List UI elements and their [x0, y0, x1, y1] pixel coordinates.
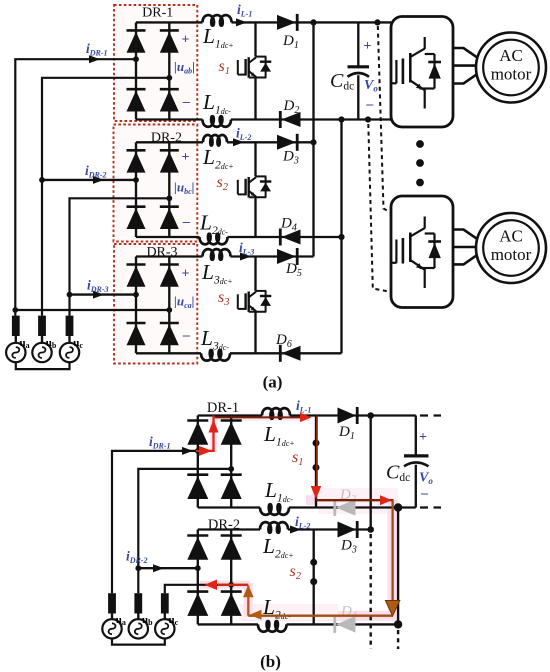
svg-text:iL-1: iL-1	[237, 2, 252, 19]
diode D6	[280, 345, 300, 362]
red arrow into DR-1 (b)	[199, 446, 212, 456]
diode D1 (b)	[338, 407, 358, 424]
svg-text:(a): (a)	[263, 373, 283, 392]
wire i_DR-2 from phase-b to DR-2 left input	[42, 179, 136, 181]
label D5	[285, 261, 302, 279]
switch S3 emitter lead	[254, 312, 256, 354]
label i_L-2	[236, 126, 251, 143]
svg-text:L1dc+: L1dc+	[263, 422, 295, 449]
inductor L3dc+	[203, 249, 231, 260]
switch S1 collector lead	[254, 22, 256, 56]
svg-text:D4: D4	[340, 604, 357, 622]
svg-text:D5: D5	[285, 261, 302, 279]
svg-text:iL-2: iL-2	[236, 126, 251, 143]
svg-text:DR-1: DR-1	[142, 6, 173, 21]
label Vo minus	[365, 97, 374, 112]
label i_DR-2	[85, 163, 107, 180]
wire phase-a to DR-1 left input (b)	[112, 451, 198, 593]
node phase-b junction	[39, 177, 45, 183]
svg-text:D2: D2	[283, 98, 300, 116]
label Vo (b)	[419, 471, 433, 487]
label i_DR-3	[87, 278, 109, 295]
wire DR-1 bottom rail to L1dc- (b)	[198, 506, 260, 508]
svg-text:–: –	[182, 95, 191, 110]
svg-text:s2: s2	[217, 174, 229, 193]
brown arrow up (b)	[243, 585, 254, 598]
svg-text:Vo: Vo	[419, 471, 433, 487]
switch S3 IGBT module	[238, 291, 271, 312]
label D4 gray (b)	[340, 604, 357, 622]
arrow i_DR-2	[93, 176, 104, 184]
inverter 1 output lines	[453, 48, 477, 84]
label D2	[283, 98, 300, 116]
wire L2dc+ to D3 (b)	[288, 528, 371, 530]
inductor L3dc-	[201, 350, 230, 361]
label u_ca	[174, 294, 195, 311]
label s2 (b)	[290, 563, 302, 582]
svg-text:–: –	[182, 215, 191, 230]
node phase-c junction	[67, 292, 73, 298]
node S1 upper (b)	[313, 440, 320, 447]
wire L1dc+ to D1 (b)	[290, 414, 416, 416]
svg-text:uc: uc	[73, 337, 83, 350]
label plus (b)	[419, 430, 427, 445]
label D3 (b)	[340, 538, 357, 556]
label Cdc (b)	[386, 462, 410, 485]
wire negative collection bus	[340, 120, 342, 354]
wire L1dc- through D2 to DC negative (b)	[289, 506, 416, 508]
source u_b (b)	[129, 593, 154, 638]
label i_L-3	[239, 240, 254, 257]
wire phase-a to DR-3 right input	[15, 309, 169, 311]
svg-text:iDR-2: iDR-2	[85, 163, 107, 180]
wire DR-2 top rail to L2dc+	[136, 141, 203, 143]
wire positive collection bus	[312, 22, 314, 256]
source u_a (b)	[102, 593, 126, 638]
wire DR-3 bottom rail to L3dc-	[136, 352, 201, 354]
svg-text:+: +	[182, 150, 190, 165]
switch S1 IGBT module	[238, 57, 271, 78]
AC motor 1	[476, 33, 546, 103]
wire phase-a bus to DR-1 left input	[15, 59, 136, 315]
inductor L2dc+	[203, 135, 227, 146]
wire phase-b to DR-1 right input (b)	[138, 469, 231, 593]
wire negative bus vertical (b)	[397, 508, 399, 625]
wire L3dc+ to D5	[231, 255, 314, 257]
svg-text:L3dc+: L3dc+	[201, 260, 233, 287]
node S2 upper (b)	[310, 559, 317, 566]
inverter 2 output lines	[453, 230, 477, 265]
svg-text:iDR-3: iDR-3	[87, 278, 109, 295]
ellipsis dots between inverters	[416, 140, 424, 186]
svg-text:iL-1: iL-1	[296, 398, 311, 415]
svg-text:iDR-1: iDR-1	[86, 41, 108, 58]
svg-text:s2: s2	[290, 563, 302, 582]
red arrow up (b)	[209, 420, 219, 433]
dashes DC positive continuation (b)	[420, 414, 441, 416]
diode D4	[280, 229, 300, 246]
svg-text:uc: uc	[169, 614, 179, 627]
switch S2 line (b)	[313, 530, 315, 625]
wire L2dc- to D4	[228, 236, 342, 238]
source u_c with line impedance	[60, 316, 84, 363]
inductor L2dc- (b)	[258, 621, 287, 632]
svg-text:motor: motor	[491, 245, 532, 264]
gray diode D2 (non conducting)	[335, 499, 356, 516]
svg-text:L2dc+: L2dc+	[262, 534, 294, 561]
source u_a with line impedance	[6, 316, 30, 363]
dashed DC negative link to inverter 2	[368, 124, 390, 292]
capacitor Cdc lower lead	[357, 75, 359, 119]
arrow i_L-1	[236, 18, 247, 26]
label DR-1	[142, 6, 173, 21]
DR-3 rectifier dashed boundary box	[114, 244, 197, 364]
label s1	[219, 58, 230, 77]
svg-text:L2dc-: L2dc-	[199, 211, 228, 238]
svg-text:Vo: Vo	[364, 78, 378, 94]
label minus (b)	[420, 486, 429, 501]
node phase-b junction (b)	[135, 565, 141, 571]
svg-text:L3dc-: L3dc-	[200, 326, 229, 353]
label (b)	[260, 652, 281, 671]
wire L1dc- to D2 and DC bus negative	[231, 118, 391, 120]
arrow i_L-2	[233, 138, 244, 146]
wire phase-c to DR-2 right input (b)	[165, 585, 231, 593]
inductor L2dc-	[200, 234, 228, 245]
inverter 2 IGBT symbol	[391, 217, 441, 289]
svg-text:D1: D1	[282, 33, 299, 51]
wire L3dc- to D6	[230, 352, 342, 354]
arrow i_DR-3	[93, 291, 104, 299]
label L3dc+	[201, 260, 233, 287]
svg-text:(b): (b)	[260, 652, 281, 671]
svg-text:+: +	[182, 33, 190, 48]
node S1 lower (b)	[313, 464, 320, 471]
red arrow down S1 (b)	[311, 486, 322, 499]
svg-text:motor: motor	[491, 65, 532, 84]
dark red overlay on S1 (b)	[316, 416, 318, 490]
capacitor Cdc plates	[348, 67, 370, 77]
arrow i_DR-1	[89, 55, 100, 63]
inductor L2dc+ (b)	[260, 522, 288, 533]
label s1 (b)	[292, 449, 303, 468]
label L1dc+	[202, 24, 234, 51]
label D2 gray (b)	[339, 487, 356, 505]
svg-text:iL-3: iL-3	[239, 240, 254, 257]
dashed DC positive link to inverter 2	[378, 26, 391, 213]
wire DR-2 bottom rail to L2dc- (b)	[198, 623, 258, 625]
red path up through DR-1 (b)	[196, 416, 215, 453]
label D1 (b)	[338, 424, 355, 442]
label D1	[282, 33, 299, 51]
pink glow highlight of conduction path	[200, 415, 398, 620]
label (a)	[263, 373, 283, 392]
label L2dc- (b)	[262, 595, 291, 622]
node negative bus top (b)	[394, 503, 402, 511]
node D3 cathode junction	[310, 139, 316, 145]
diode rectifier bridge DR-1 (b)	[187, 416, 241, 508]
inductor L1dc+	[203, 15, 232, 26]
dashes DC negative continuation (b)	[420, 506, 441, 508]
svg-text:s1: s1	[292, 449, 303, 468]
wire i_DR-3 from phase-c to DR-3 left input	[70, 293, 137, 295]
arrow i_L-2 (b)	[290, 526, 301, 534]
dashed negative bus continuation (b)	[397, 630, 399, 649]
svg-text:D3: D3	[340, 538, 357, 556]
inverter 1 IGBT symbol	[391, 37, 441, 109]
diode D5	[277, 248, 297, 265]
label L2dc-	[199, 211, 228, 238]
svg-text:s3: s3	[218, 289, 229, 308]
switch S2 collector lead	[254, 142, 256, 176]
label DR-1 minus	[182, 95, 191, 110]
svg-text:+: +	[364, 39, 372, 54]
label s2	[217, 174, 229, 193]
svg-text:iDR-2: iDR-2	[126, 549, 148, 566]
inductor L1dc- (b)	[260, 504, 289, 515]
capacitor Cdc upper lead (b)	[415, 416, 417, 456]
wire DR-1 top rail to L1dc+	[136, 21, 203, 23]
diode rectifier bridge DR-2 (4 diodes)	[127, 142, 179, 237]
label i_DR-1 (b)	[149, 434, 171, 451]
label u_ab	[174, 59, 195, 76]
label i_L-1 (b)	[296, 398, 311, 415]
switch S3 collector lead	[254, 257, 256, 291]
dark red path S1 to bus (b)	[316, 499, 394, 501]
wire L1dc+ to D1 and DC bus	[232, 21, 392, 23]
svg-text:L1dc+: L1dc+	[202, 24, 234, 51]
svg-text:iL-2: iL-2	[295, 514, 310, 531]
red arrow right on rail (b)	[300, 413, 312, 423]
node S2 lower (b)	[310, 578, 317, 585]
diode rectifier bridge DR-1 (4 diodes)	[127, 22, 179, 119]
arrow i_L-3	[240, 253, 251, 261]
svg-text:ua: ua	[116, 614, 126, 627]
svg-text:L1dc-: L1dc-	[202, 90, 231, 117]
AC motor 2	[476, 213, 546, 283]
wire phase-c bus to DR-2 right input	[70, 198, 170, 315]
wire DR-1 top rail to L1dc+ (b)	[198, 414, 262, 416]
label L2dc+ (b)	[262, 534, 294, 561]
svg-text:–: –	[182, 328, 191, 343]
svg-text:D3: D3	[282, 149, 299, 167]
switch S2 emitter lead	[254, 197, 256, 237]
label u_bc	[174, 180, 195, 197]
node D4 anode junction	[338, 234, 344, 240]
svg-text:L1dc-: L1dc-	[264, 478, 293, 505]
node DC bus top right	[374, 19, 380, 25]
label DR-3 minus	[182, 328, 191, 343]
label L1dc-	[202, 90, 231, 117]
brown path return left (b)	[248, 615, 392, 617]
label D6	[275, 332, 292, 350]
label L1dc+ (b)	[263, 422, 295, 449]
label DR-1 (b)	[207, 400, 239, 416]
brown arrow left (b)	[250, 610, 262, 620]
brown arrow down (b)	[385, 601, 399, 617]
svg-text:ua: ua	[20, 337, 30, 350]
dark red overlay on L1dc+ rail (b)	[215, 416, 302, 418]
wire L2dc- through D4 to bus (b)	[287, 623, 399, 625]
arrow i_DR-1 (b)	[182, 447, 193, 455]
gray diode D4 (non conducting)	[335, 616, 356, 633]
dashed positive bus continuation (b)	[370, 534, 372, 649]
label D4	[280, 216, 297, 234]
source u_c (b)	[155, 593, 179, 638]
arrow i_DR-2 (b)	[153, 564, 164, 572]
svg-text:L2dc+: L2dc+	[202, 145, 234, 172]
label DR-2 plus	[182, 150, 190, 165]
red arrow right to bus (b)	[380, 495, 392, 505]
label Vo plus	[364, 39, 372, 54]
wire phase-b bus to DR-1 right input	[42, 78, 169, 316]
svg-text:AC: AC	[499, 46, 523, 65]
svg-text:s1: s1	[219, 58, 230, 77]
wire DR-1 bottom rail to L1dc-	[136, 118, 203, 120]
wire source neutral bottom	[16, 362, 70, 369]
label i_DR-2 (b)	[126, 549, 148, 566]
svg-text:Cdc: Cdc	[330, 70, 354, 93]
label s3	[218, 289, 229, 308]
brown path up to DR-2 (b)	[247, 586, 249, 616]
node D1 junction (b)	[367, 412, 374, 419]
label i_DR-1	[86, 41, 108, 58]
label Vo	[364, 78, 378, 94]
switch S2 IGBT module	[238, 176, 271, 197]
wire positive bus D1-D3 (b)	[370, 416, 372, 530]
red overlay into DR-2 (b)	[218, 584, 248, 586]
svg-text:ub: ub	[46, 337, 57, 350]
source u_b with line impedance	[32, 316, 57, 363]
label D3	[282, 149, 299, 167]
DR-1 rectifier dashed boundary box	[114, 5, 197, 121]
diode rectifier bridge DR-3 (4 diodes)	[127, 257, 179, 354]
label DR-1 plus	[182, 33, 190, 48]
node D1 cathode junction	[310, 19, 316, 25]
wire DR-2 bottom rail to L2dc-	[136, 236, 200, 238]
svg-text:–: –	[420, 486, 429, 501]
diode D3	[277, 134, 297, 151]
label i_L-2 (b)	[295, 514, 310, 531]
svg-text:D1: D1	[338, 424, 355, 442]
node negative bus bottom (b)	[394, 620, 402, 628]
diode D2	[280, 111, 300, 128]
brown path down outer bus (b)	[391, 500, 393, 606]
node phase-a junction	[12, 307, 18, 313]
svg-text:+: +	[182, 267, 190, 282]
diode D1	[277, 14, 297, 31]
svg-text:+: +	[419, 430, 427, 445]
capacitor Cdc upper lead	[357, 22, 359, 66]
svg-text:ub: ub	[142, 614, 153, 627]
label L3dc-	[200, 326, 229, 353]
diode D3 (b)	[338, 521, 358, 538]
label DR-2 minus	[182, 215, 191, 230]
node DC bus bottom right	[365, 116, 371, 122]
wire i_DR-2 phase-b to DR-2 left (b)	[138, 567, 198, 569]
svg-text:iDR-1: iDR-1	[149, 434, 171, 451]
inductor L1dc-	[203, 116, 232, 127]
label DR-3 plus	[182, 267, 190, 282]
svg-text:AC: AC	[499, 227, 523, 246]
wire DR-3 top rail to L3dc+	[136, 255, 203, 257]
label Cdc	[330, 70, 354, 93]
label i_L-1	[237, 2, 252, 19]
DR-2 rectifier dashed boundary box	[114, 125, 198, 242]
switch S1 line (b)	[315, 416, 317, 508]
svg-text:–: –	[365, 97, 374, 112]
node D3 junction (b)	[367, 526, 374, 533]
node D2 anode junction	[338, 116, 344, 122]
inverter 1 box	[391, 17, 453, 128]
label L2dc+	[202, 145, 234, 172]
capacitor Cdc lower lead (b)	[415, 465, 417, 508]
capacitor Cdc plates (b)	[404, 456, 429, 466]
inductor L1dc+ (b)	[262, 408, 290, 419]
label DR-2 (b)	[208, 517, 240, 533]
wire DR-2 top rail to L2dc+ (b)	[198, 528, 260, 530]
inverter 2 box	[391, 196, 453, 308]
svg-text:D4: D4	[280, 216, 297, 234]
red arrow left into DR-2 (b)	[205, 580, 218, 591]
wire source neutral bottom (b)	[112, 639, 165, 645]
switch S1 emitter lead	[254, 78, 256, 120]
label DR-3	[146, 245, 177, 260]
svg-text:DR-1: DR-1	[207, 400, 239, 416]
label L1dc- (b)	[264, 478, 293, 505]
diode rectifier bridge DR-2 (b)	[187, 530, 241, 625]
label DR-2	[151, 131, 182, 146]
wire L2dc+ to D3	[227, 141, 314, 143]
svg-text:D6: D6	[275, 332, 292, 350]
